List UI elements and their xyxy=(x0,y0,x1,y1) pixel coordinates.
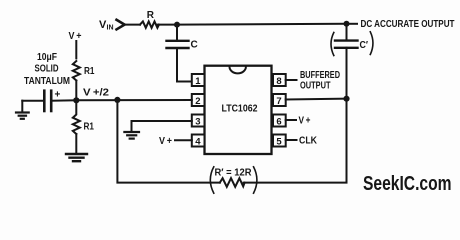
node V+/2 label xyxy=(83,87,109,99)
feedback wire bottom-right xyxy=(244,99,347,183)
wire R to node C xyxy=(158,24,177,26)
wire ground to tantalum cap xyxy=(22,100,43,102)
pin 1 xyxy=(192,74,205,87)
svg-text:7: 7 xyxy=(276,96,281,107)
capacitor C xyxy=(167,25,198,82)
svg-text:4: 4 xyxy=(195,137,201,148)
svg-text:TANTALUM: TANTALUM xyxy=(24,76,70,87)
svg-text:5: 5 xyxy=(276,137,282,148)
svg-text:V +: V + xyxy=(159,136,172,147)
input arrow xyxy=(117,20,125,30)
pin 5 stub wire xyxy=(286,139,297,141)
pin 4 xyxy=(192,135,205,148)
ground below R1 xyxy=(66,154,87,161)
wire V+ down xyxy=(75,41,77,58)
svg-text:OUTPUT: OUTPUT xyxy=(300,80,331,91)
resistor R1 lower xyxy=(73,100,80,134)
svg-text:6: 6 xyxy=(276,117,281,128)
tantalum cap label xyxy=(24,52,70,87)
svg-text:SeekIC.com: SeekIC.com xyxy=(363,173,452,195)
svg-text:CLK: CLK xyxy=(299,136,318,147)
pin 7 xyxy=(273,94,286,107)
wire to DC output xyxy=(347,23,358,25)
wire top to node C' xyxy=(177,23,347,26)
pin 6 stub wire xyxy=(286,119,296,121)
wire R1 lower to ground xyxy=(75,134,77,153)
svg-text:C′: C′ xyxy=(360,40,369,51)
svg-text:IN: IN xyxy=(107,25,114,32)
svg-text:R1: R1 xyxy=(84,66,95,77)
wire pin 3 to ground xyxy=(132,121,192,131)
pin 3 xyxy=(192,115,205,128)
svg-text:V +: V + xyxy=(299,116,311,127)
node CLK label xyxy=(299,136,318,147)
wire node to pin2 xyxy=(76,99,192,101)
svg-text:8: 8 xyxy=(276,76,281,87)
svg-text:LTC1062: LTC1062 xyxy=(222,103,258,115)
capacitor 10uF tantalum xyxy=(44,90,76,112)
node V+ label pin4 xyxy=(159,136,172,147)
capacitor C' xyxy=(331,24,373,99)
node VIN label xyxy=(99,19,114,32)
pin 2 xyxy=(192,94,205,107)
feedback wire down-left xyxy=(117,100,219,183)
node feedback junction xyxy=(114,97,120,103)
svg-text:1: 1 xyxy=(195,76,201,87)
R' label xyxy=(215,167,253,178)
svg-text:DC ACCURATE OUTPUT: DC ACCURATE OUTPUT xyxy=(361,19,455,30)
wire R1 to node xyxy=(75,81,77,101)
svg-text:R′ = 12R: R′ = 12R xyxy=(215,167,253,178)
node DC ACCURATE OUTPUT label xyxy=(361,19,455,30)
wire VIN to R xyxy=(125,24,140,26)
svg-text:R1: R1 xyxy=(84,122,95,133)
ground far left xyxy=(16,101,29,119)
svg-text:10μF: 10μF xyxy=(37,52,57,63)
svg-text:V +: V + xyxy=(69,31,82,42)
node V+ label left top xyxy=(69,31,82,42)
ground pin 3 xyxy=(124,132,139,139)
node junction C xyxy=(174,22,180,28)
svg-text:+: + xyxy=(55,90,61,101)
svg-text:R: R xyxy=(147,10,155,21)
node BUFFERED OUTPUT label xyxy=(300,70,340,91)
svg-text:SOLID: SOLID xyxy=(35,64,59,75)
svg-text:3: 3 xyxy=(195,117,200,128)
node junction C' xyxy=(344,21,350,27)
wire pin 7 to feedback node xyxy=(286,98,347,101)
node V+ label right xyxy=(299,116,311,127)
svg-text:2: 2 xyxy=(195,96,200,107)
pin 8 xyxy=(273,74,286,87)
pin 8 stub wire xyxy=(286,79,297,81)
parens around R' xyxy=(210,167,214,193)
resistor R' xyxy=(220,178,245,187)
pin 6 xyxy=(273,115,286,128)
pin 5 xyxy=(273,135,286,148)
svg-text:C: C xyxy=(191,40,198,51)
node V+/2 junction xyxy=(73,97,79,103)
node junction pin7 feedback xyxy=(343,96,349,102)
svg-text:V +/2: V +/2 xyxy=(83,87,109,99)
resistor R xyxy=(140,21,159,27)
resistor R1 upper xyxy=(73,61,80,81)
wire V+ to pin 4 xyxy=(175,139,192,141)
IC U1 LTC1062 xyxy=(205,66,272,154)
